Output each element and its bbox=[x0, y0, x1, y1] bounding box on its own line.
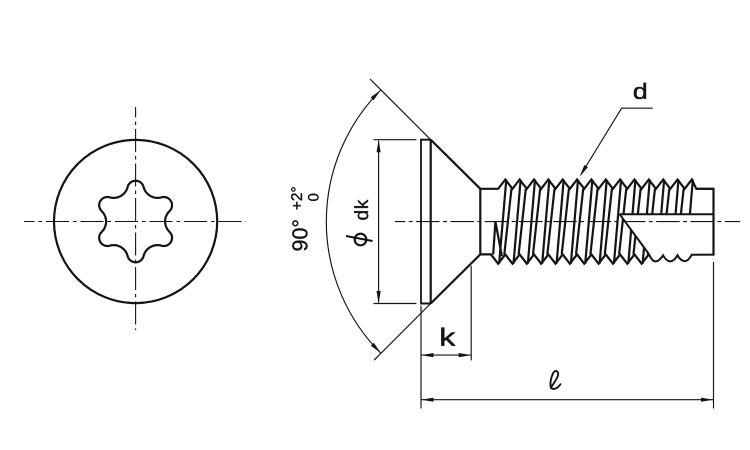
countersunk cone lower flank bbox=[431, 254, 481, 303]
head height label k bbox=[441, 328, 455, 346]
angle label 90 degrees +2/0 bbox=[291, 187, 318, 250]
length dimension line bbox=[421, 399, 714, 401]
top thread crest zigzag outline bbox=[480, 180, 713, 189]
90 degree dimension arc bbox=[326, 90, 381, 353]
d leader arrowhead bbox=[580, 165, 588, 177]
thread crest helix lines bbox=[499, 180, 693, 264]
head height extension line left bbox=[420, 306, 422, 409]
k arrowhead left bbox=[421, 353, 434, 357]
flute floor edge bbox=[620, 213, 714, 215]
k arrowhead right bbox=[459, 353, 472, 357]
arc arrowhead bottom bbox=[371, 343, 381, 354]
k dimension line bbox=[421, 354, 471, 356]
phi dk arrowhead bottom bbox=[377, 291, 381, 304]
screw axis centerline bbox=[395, 221, 740, 223]
horizontal centerline (top view) bbox=[24, 221, 246, 223]
head flat face right edge bbox=[430, 140, 432, 304]
k extension line right bbox=[470, 266, 472, 361]
upper cone angle extension line bbox=[370, 79, 431, 140]
head face top edge bbox=[420, 139, 431, 141]
thread root helix lines bbox=[504, 189, 683, 255]
lower cone angle extension line bbox=[374, 304, 431, 361]
length label script ell bbox=[550, 371, 560, 389]
countersunk cone upper flank bbox=[431, 140, 481, 189]
flute leading diagonal edge bbox=[620, 214, 649, 254]
length extension line right bbox=[713, 262, 715, 409]
phi dk extension line bottom bbox=[374, 303, 417, 305]
screw head outline circle (top view) bbox=[54, 140, 217, 303]
head flat face left edge bbox=[420, 140, 422, 304]
hexalobular (torx) recess bbox=[99, 181, 172, 263]
cut thread root scallops bbox=[649, 254, 714, 262]
point end face bbox=[712, 188, 714, 256]
flute cut-away blank region bbox=[620, 214, 715, 272]
length arrowhead right bbox=[701, 398, 714, 402]
phi dk extension line top bbox=[374, 139, 417, 141]
head face bottom edge bbox=[420, 303, 431, 305]
cone-shank junction line bbox=[479, 189, 481, 255]
vertical centerline (top view) bbox=[135, 107, 137, 330]
bottom thread crest zigzag outline bbox=[480, 254, 649, 263]
phi dk dimension line bbox=[378, 141, 380, 303]
thread diameter label d bbox=[634, 83, 646, 99]
incomplete thread run-out wedge bbox=[493, 222, 502, 257]
thread diameter leader line bbox=[581, 108, 653, 174]
phi dk arrowhead top bbox=[377, 140, 381, 153]
point end top edge bbox=[696, 188, 713, 190]
arc arrowhead top bbox=[371, 90, 381, 100]
length arrowhead left bbox=[421, 398, 434, 402]
diameter label phi dk bbox=[346, 200, 373, 246]
